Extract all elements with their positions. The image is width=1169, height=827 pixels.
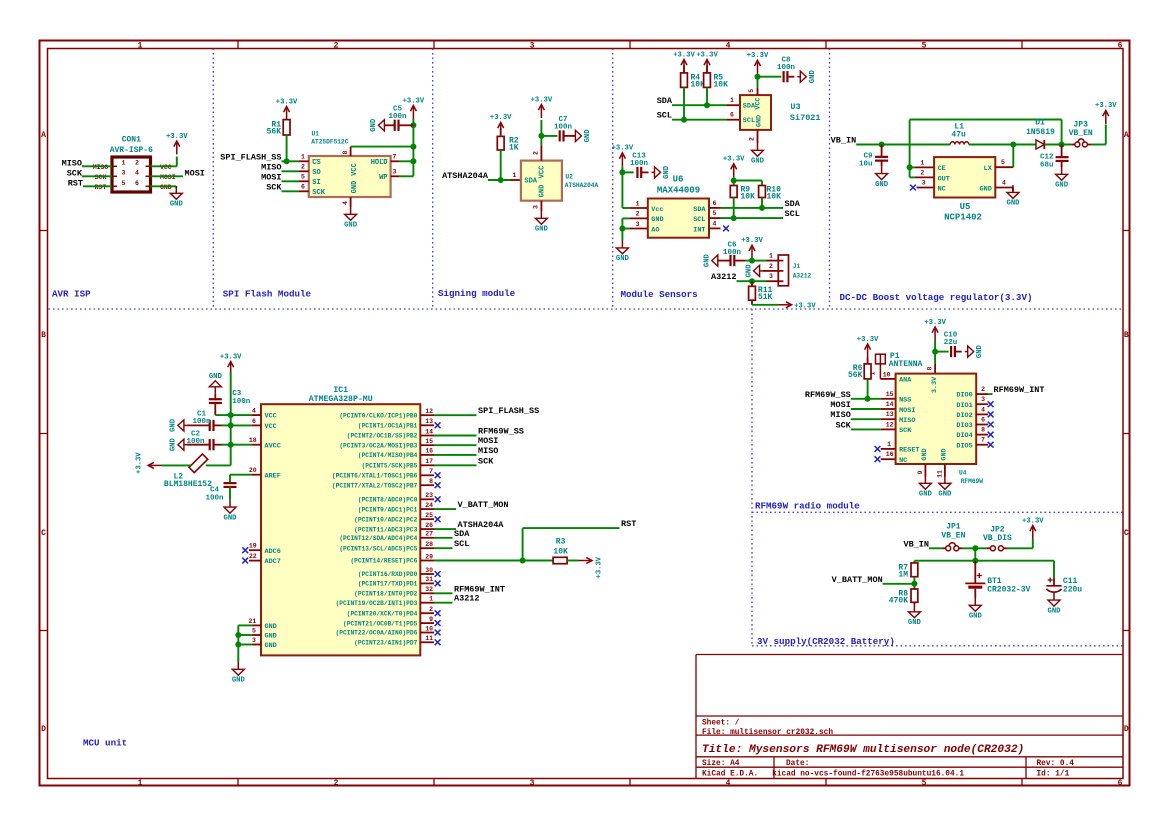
ground (U4 pin9) bbox=[919, 476, 933, 499]
svg-text:3: 3 bbox=[533, 205, 540, 209]
R11 bottom lead bbox=[751, 300, 753, 305]
wire D1 to JP3 bbox=[1044, 144, 1071, 146]
capacitor C2 100n bbox=[186, 430, 213, 450]
U6 right pin numbers bbox=[713, 200, 717, 228]
svg-text:MISO: MISO bbox=[261, 162, 281, 172]
wire IC1 PD2 to RFM69W_INT bbox=[434, 592, 453, 594]
svg-text:10u: 10u bbox=[859, 161, 873, 169]
svg-text:(PCINT2/OC1B/SS)PB2: (PCINT2/OC1B/SS)PB2 bbox=[347, 433, 418, 440]
wire GND drop bbox=[175, 186, 177, 188]
svg-text:3: 3 bbox=[122, 170, 126, 177]
frame column tick bottom 3 bbox=[629, 779, 631, 787]
no-connect IC1 PD0 bbox=[435, 571, 441, 577]
U5 pin names bbox=[938, 165, 993, 193]
wire AREF bbox=[230, 474, 252, 476]
frame column tick bottom 1 bbox=[237, 779, 239, 787]
frame row label B right bbox=[1124, 331, 1129, 340]
power +3.3V (U6) bbox=[612, 145, 634, 167]
jumper JP1 VB_EN bbox=[941, 523, 965, 551]
svg-text:+3.3V: +3.3V bbox=[595, 556, 603, 578]
svg-text:GND: GND bbox=[370, 118, 378, 132]
svg-text:100n: 100n bbox=[554, 123, 573, 131]
svg-text:(PCINT13/SCL/ADC5)PC5: (PCINT13/SCL/ADC5)PC5 bbox=[339, 545, 417, 552]
svg-text:DIO3: DIO3 bbox=[956, 422, 972, 430]
power +3.3V (3V supply) bbox=[1022, 517, 1044, 539]
power +3.3V (MCU) bbox=[220, 353, 242, 375]
wire IC1 PB5 to SCK bbox=[434, 464, 477, 466]
svg-text:28: 28 bbox=[425, 541, 433, 548]
U3 SCL pin6 stub bbox=[726, 112, 740, 120]
microcontroller IC1 ATMEGA328P-MU bbox=[261, 386, 420, 655]
wire R10 to SDA bbox=[761, 198, 763, 208]
resistor R5 bbox=[704, 73, 729, 90]
resistor R10 bbox=[759, 186, 782, 202]
svg-text:DIO2: DIO2 bbox=[956, 412, 972, 420]
svg-text:MISO: MISO bbox=[93, 164, 109, 171]
svg-text:IC1: IC1 bbox=[333, 386, 348, 395]
wire feedback right drop bbox=[1061, 120, 1063, 145]
svg-text:JP2: JP2 bbox=[990, 525, 1005, 534]
label SPI_FLASH_SS (IC1 PB0) bbox=[478, 406, 539, 416]
capacitor C4 100n bbox=[205, 483, 236, 503]
label RFM69W_SS (IC1 PB2) bbox=[478, 427, 524, 437]
svg-text:47u: 47u bbox=[951, 131, 966, 140]
C10 right lead bbox=[955, 351, 962, 353]
svg-text:RFM69W: RFM69W bbox=[961, 478, 984, 485]
ground (C6) bbox=[704, 253, 721, 267]
no-connect IC1 PD5 bbox=[435, 620, 441, 626]
jumper JP2 VB_DIS bbox=[983, 525, 1012, 550]
svg-text:(PCINT16/RXD)PD0: (PCINT16/RXD)PD0 bbox=[358, 571, 418, 578]
junction rail / C5 bbox=[410, 122, 416, 128]
U4 GND pin11 stub bbox=[936, 464, 945, 478]
svg-text:3: 3 bbox=[530, 41, 535, 50]
svg-text:SCK: SCK bbox=[95, 174, 107, 181]
junction SPI_FLASH_SS bbox=[284, 158, 290, 164]
wire R3 to +3.3V bbox=[567, 560, 578, 562]
section title MCU unit bbox=[83, 738, 127, 749]
junction GND pin3 bbox=[235, 642, 241, 648]
svg-text:26: 26 bbox=[425, 522, 433, 529]
U5 GND pin4 stub bbox=[995, 180, 1013, 188]
svg-text:GND: GND bbox=[651, 216, 663, 224]
svg-text:14: 14 bbox=[886, 401, 894, 408]
capacitor C11 220u bbox=[1046, 577, 1082, 595]
ground (C10) bbox=[965, 344, 985, 358]
junction U6 Vcc / C13 bbox=[619, 169, 625, 175]
svg-text:10: 10 bbox=[883, 371, 891, 378]
svg-text:MCU unit: MCU unit bbox=[83, 738, 127, 749]
junction C9 / VB_IN bbox=[879, 142, 885, 148]
svg-text:VCC: VCC bbox=[265, 413, 277, 421]
svg-text:+3.3V: +3.3V bbox=[673, 51, 695, 59]
dashed divider radio module bottom bbox=[752, 511, 1123, 513]
frame column label 4 bottom bbox=[726, 779, 731, 788]
junction VCC pin4 bbox=[228, 412, 234, 418]
IC1 right pin numbers bbox=[425, 408, 433, 642]
svg-text:RESET: RESET bbox=[899, 447, 919, 455]
ground (C3) bbox=[209, 373, 223, 394]
resistor R11 bbox=[749, 286, 773, 302]
svg-text:U5: U5 bbox=[960, 202, 971, 212]
svg-text:Signing module: Signing module bbox=[438, 288, 516, 299]
svg-text:MISO: MISO bbox=[62, 158, 82, 168]
diode D1 1N5819 bbox=[1026, 119, 1055, 149]
svg-text:470K: 470K bbox=[889, 597, 908, 606]
U6 right pin stubs bbox=[709, 208, 721, 229]
svg-text:GND: GND bbox=[170, 418, 178, 432]
wire +3.3V drop (U6) bbox=[621, 166, 623, 172]
svg-text:VB_EN: VB_EN bbox=[1069, 129, 1093, 138]
svg-text:100n: 100n bbox=[205, 495, 224, 503]
wire WP to rail bbox=[399, 175, 413, 177]
wire +3.3V riser (boost) bbox=[1105, 124, 1107, 144]
ground (U4 pin11) bbox=[938, 476, 952, 499]
CON1 pin names bbox=[93, 164, 176, 191]
wire battery drop bbox=[974, 548, 976, 560]
wire R2 to SDA bbox=[500, 150, 502, 180]
svg-text:(PCINT3/OC2A/MOSI)PB3: (PCINT3/OC2A/MOSI)PB3 bbox=[339, 442, 417, 449]
antenna P1 bbox=[869, 352, 922, 379]
svg-text:1: 1 bbox=[122, 160, 126, 167]
C1 left lead bbox=[187, 424, 210, 426]
ground (C9) bbox=[875, 166, 889, 189]
svg-text:C3: C3 bbox=[232, 390, 242, 398]
U6 left pin numbers bbox=[636, 200, 640, 228]
svg-text:+3.3V: +3.3V bbox=[696, 51, 718, 59]
svg-text:GND: GND bbox=[265, 623, 277, 631]
svg-text:9: 9 bbox=[917, 470, 924, 474]
frame column tick bottom 5 bbox=[1021, 779, 1023, 787]
svg-text:SCL: SCL bbox=[693, 216, 705, 224]
U1 pin names bbox=[312, 159, 359, 197]
J1 pin2 stub bbox=[763, 270, 779, 272]
svg-text:4: 4 bbox=[252, 408, 256, 415]
frame column tick bottom 2 bbox=[433, 779, 435, 787]
svg-text:NC: NC bbox=[938, 185, 946, 193]
junction RESET / R3 bbox=[520, 558, 526, 564]
ground (C12) bbox=[1055, 167, 1069, 190]
frame row tick left 1 bbox=[40, 230, 48, 232]
crypto IC U2 ATSHA204A bbox=[521, 161, 599, 201]
svg-text:Si7021: Si7021 bbox=[790, 113, 821, 123]
svg-text:HOLD: HOLD bbox=[371, 159, 388, 167]
svg-text:U2: U2 bbox=[565, 174, 573, 181]
capacitor C8 bbox=[777, 57, 796, 83]
svg-text:1: 1 bbox=[920, 159, 924, 166]
svg-text:2: 2 bbox=[301, 164, 305, 171]
label A3212 (IC1 PD3) bbox=[454, 594, 480, 604]
svg-text:GND: GND bbox=[160, 184, 172, 191]
U2 SDA pin1 stub bbox=[510, 172, 521, 180]
svg-text:15: 15 bbox=[886, 391, 894, 398]
title block Sheet text bbox=[702, 720, 740, 728]
J1 pin1 stub bbox=[767, 253, 779, 261]
svg-text:100n: 100n bbox=[232, 398, 251, 406]
svg-text:ADC7: ADC7 bbox=[265, 558, 281, 566]
wire MISO to U4 bbox=[851, 418, 881, 420]
frame column label 4 top bbox=[726, 41, 731, 50]
IC1 right pin names bbox=[332, 412, 418, 646]
svg-text:1: 1 bbox=[887, 441, 891, 448]
svg-text:JP3: JP3 bbox=[1073, 120, 1088, 129]
wire to VCC pin4 bbox=[231, 414, 252, 416]
svg-text:4: 4 bbox=[713, 220, 717, 227]
svg-text:SCL: SCL bbox=[743, 117, 755, 125]
svg-text:V_BATT_MON: V_BATT_MON bbox=[832, 575, 883, 585]
resistor R8 bbox=[889, 589, 918, 606]
svg-text:100n: 100n bbox=[723, 249, 742, 257]
C12 top lead bbox=[1061, 145, 1063, 157]
capacitor C13 bbox=[630, 152, 649, 178]
junction U2 VCC / C7 bbox=[538, 133, 544, 139]
label SCK (U1) bbox=[266, 182, 282, 192]
svg-text:56K: 56K bbox=[848, 371, 863, 380]
U5 GND drop bbox=[1012, 188, 1014, 193]
svg-text:+3.3V: +3.3V bbox=[490, 114, 512, 122]
svg-text:A3212: A3212 bbox=[793, 272, 812, 279]
wire IC1 PC6 to R3 bbox=[434, 560, 553, 562]
svg-text:MISO: MISO bbox=[899, 417, 915, 425]
U3 GND pin2 stub bbox=[749, 130, 758, 143]
dashed divider AVR-ISP/SPI-Flash bbox=[212, 49, 214, 310]
junction R5 / SDA bbox=[704, 102, 710, 108]
svg-text:NC: NC bbox=[899, 457, 907, 465]
svg-text:Size: A4: Size: A4 bbox=[702, 760, 740, 768]
svg-text:MOSI: MOSI bbox=[185, 168, 205, 178]
svg-text:(PCINT14/RESET)PC6: (PCINT14/RESET)PC6 bbox=[350, 558, 417, 565]
wire C3 to VCC bbox=[215, 414, 230, 416]
svg-text:2: 2 bbox=[334, 41, 339, 50]
ground (R8) bbox=[908, 605, 922, 628]
U5 LX pin5 stub bbox=[995, 159, 1013, 167]
svg-text:GND: GND bbox=[224, 514, 238, 522]
wire R1 to SPI_FLASH_SS bbox=[286, 135, 288, 161]
R2 top lead bbox=[500, 128, 502, 136]
frame column label 1 bottom bbox=[138, 779, 143, 788]
svg-text:+3.3V: +3.3V bbox=[276, 98, 298, 106]
wire R11 to +3.3V bbox=[752, 304, 778, 306]
wire LX riser bbox=[1012, 145, 1014, 168]
C2 right lead bbox=[214, 444, 222, 446]
no-connect U4 DIO5 bbox=[988, 442, 994, 448]
label MOSI (IC1 PB3) bbox=[478, 436, 498, 446]
svg-text:J1: J1 bbox=[793, 263, 801, 270]
svg-text:23: 23 bbox=[425, 492, 433, 499]
svg-text:30: 30 bbox=[425, 567, 433, 574]
wire AREF to C4 bbox=[229, 475, 231, 484]
U2 VCC pin2 stub bbox=[533, 145, 542, 160]
R11 top lead bbox=[751, 281, 753, 286]
junction J1 pin3 / R11 bbox=[749, 278, 755, 284]
frame column label 5 bottom bbox=[922, 779, 927, 788]
ground (BT1) bbox=[969, 598, 983, 621]
svg-text:5: 5 bbox=[713, 210, 717, 217]
svg-text:GND: GND bbox=[908, 619, 922, 627]
U4 3.3V pin8 stub bbox=[926, 364, 935, 374]
dashed divider Signing/Sensors bbox=[612, 49, 614, 310]
frame row tick left 2 bbox=[40, 433, 48, 435]
frame column label 3 top bbox=[530, 41, 535, 50]
svg-text:SCL: SCL bbox=[454, 539, 469, 549]
svg-text:C: C bbox=[1124, 529, 1129, 538]
no-connect U4 DIO4 bbox=[988, 432, 994, 438]
no-connect U6 INT bbox=[723, 226, 729, 232]
junction battery bus bbox=[972, 558, 978, 564]
svg-text:32: 32 bbox=[425, 586, 433, 593]
junction VCC rail / pin8 bbox=[410, 144, 416, 150]
sensor U3 Si7021 bbox=[740, 95, 821, 130]
wire +3.3V to J1 pin1 bbox=[751, 259, 753, 261]
wire R7 to R8 bbox=[913, 577, 915, 589]
svg-text:GND: GND bbox=[980, 185, 992, 193]
no-connect IC1 PC2 bbox=[435, 516, 441, 522]
svg-text:2: 2 bbox=[334, 779, 339, 788]
svg-text:VCC: VCC bbox=[265, 423, 277, 431]
svg-text:5: 5 bbox=[748, 89, 755, 93]
svg-text:LX: LX bbox=[984, 165, 993, 173]
label VB_IN (boost) bbox=[831, 136, 857, 146]
svg-text:R3: R3 bbox=[556, 538, 566, 547]
label MOSI bbox=[185, 168, 205, 178]
wire feedback left drop bbox=[909, 120, 911, 178]
C6 left lead bbox=[718, 260, 731, 262]
wire SPI_FLASH_SS to U1 CS bbox=[282, 160, 300, 162]
svg-text:VCC: VCC bbox=[351, 163, 359, 176]
U3 VCC pin5 stub bbox=[748, 87, 758, 95]
svg-text:RFM69W_INT: RFM69W_INT bbox=[994, 385, 1045, 395]
svg-text:GND: GND bbox=[351, 181, 359, 194]
svg-text:SO: SO bbox=[312, 169, 320, 177]
power +3.3V (U2) bbox=[531, 96, 553, 118]
wire feedback top rail bbox=[910, 119, 1062, 121]
svg-text:DIO4: DIO4 bbox=[956, 432, 972, 440]
svg-text:GND: GND bbox=[976, 344, 984, 358]
svg-text:4: 4 bbox=[342, 201, 349, 205]
svg-text:6: 6 bbox=[713, 200, 717, 207]
svg-text:B: B bbox=[1124, 331, 1129, 340]
BT1 bottom lead bbox=[974, 589, 976, 598]
wire IC1 PD3 to A3212 bbox=[434, 602, 453, 604]
CON1 pin numbers bbox=[122, 160, 140, 187]
U4 pin names bbox=[899, 376, 973, 465]
label RST bbox=[621, 519, 636, 529]
svg-text:SCK: SCK bbox=[67, 168, 83, 178]
svg-text:1: 1 bbox=[429, 596, 433, 603]
wire MCU ground drop bbox=[237, 625, 239, 662]
capacitor C3 bbox=[209, 390, 251, 406]
label MISO (U1) bbox=[261, 162, 281, 172]
svg-text:SDA: SDA bbox=[524, 178, 537, 186]
svg-text:GND: GND bbox=[938, 491, 952, 499]
label SDA (Si7021) bbox=[657, 96, 673, 106]
title block Id text bbox=[1037, 771, 1070, 779]
power +3.3V (U1 rail) bbox=[403, 97, 425, 119]
svg-text:DIO0: DIO0 bbox=[956, 392, 972, 400]
U6 pin names bbox=[651, 206, 706, 235]
svg-text:+3.3V: +3.3V bbox=[1095, 102, 1117, 110]
svg-text:D: D bbox=[1124, 725, 1129, 734]
junction D1 / C12 bbox=[1059, 142, 1065, 148]
capacitor C10 bbox=[944, 332, 958, 358]
svg-text:29: 29 bbox=[425, 553, 433, 560]
wire SCK to U1 SCK bbox=[282, 190, 300, 192]
svg-text:16: 16 bbox=[425, 448, 433, 455]
svg-text:4: 4 bbox=[726, 779, 731, 788]
ground (U2) bbox=[535, 211, 549, 234]
svg-text:GND: GND bbox=[170, 201, 184, 209]
svg-text:(PCINT18/INT0)PD2: (PCINT18/INT0)PD2 bbox=[354, 591, 417, 598]
svg-text:24: 24 bbox=[425, 502, 433, 509]
label V_BATT_MON (IC1 PC1) bbox=[458, 500, 509, 510]
svg-text:SDA: SDA bbox=[454, 529, 470, 539]
label MISO (IC1 PB4) bbox=[478, 446, 498, 456]
inductor L1 47u bbox=[950, 123, 969, 145]
wire R6 to NSS bbox=[867, 379, 869, 399]
IC1 left pin numbers bbox=[248, 408, 256, 644]
svg-text:(PCINT8/ADC0)PC0: (PCINT8/ADC0)PC0 bbox=[358, 497, 418, 504]
ferrite bead L2 BLM18HE152 bbox=[164, 454, 212, 489]
ground (C4) bbox=[224, 500, 238, 523]
svg-text:(PCINT23/AIN1)PD7: (PCINT23/AIN1)PD7 bbox=[354, 640, 417, 647]
no-connect U4 NC pin bbox=[875, 456, 881, 462]
svg-text:+3.3V: +3.3V bbox=[723, 156, 745, 164]
wire MISO to U1 SO bbox=[282, 170, 300, 172]
junction CE / feedback bbox=[907, 164, 913, 170]
wire R4 to SCL bbox=[683, 87, 685, 119]
C9 top lead bbox=[881, 145, 883, 157]
ground (C5) bbox=[370, 118, 387, 132]
dashed divider top row bottom bbox=[49, 308, 1124, 310]
resistor R4 bbox=[681, 73, 706, 90]
C3 bottom lead bbox=[214, 404, 216, 416]
svg-text:CE: CE bbox=[938, 165, 946, 173]
C9 bottom lead bbox=[881, 161, 883, 166]
U1 pin 4 stub bbox=[342, 197, 351, 207]
svg-text:10K: 10K bbox=[553, 547, 568, 556]
wire IC1 PB0 to SPI_FLASH_SS bbox=[434, 414, 477, 416]
U2 GND pin3 stub bbox=[533, 201, 542, 211]
wire C1 to VCC6 bbox=[222, 424, 231, 426]
svg-text:MAX44009: MAX44009 bbox=[657, 186, 700, 196]
ground (U6) bbox=[616, 241, 630, 264]
svg-text:GND: GND bbox=[265, 642, 277, 650]
svg-text:1: 1 bbox=[636, 200, 640, 207]
wire SDA to U3 bbox=[672, 104, 726, 106]
junction rail / HOLD bbox=[410, 158, 416, 164]
svg-text:(PCINT7/XTAL2/TOSC2)PB7: (PCINT7/XTAL2/TOSC2)PB7 bbox=[332, 482, 418, 489]
label V_BATT_MON (divider) bbox=[832, 575, 883, 585]
svg-text:(PCINT12/SDA/ADC4)PC4: (PCINT12/SDA/ADC4)PC4 bbox=[339, 535, 417, 542]
svg-text:SCK: SCK bbox=[835, 420, 851, 430]
wire R9 to R10 top bbox=[734, 180, 762, 182]
junction U4 3.3V / C10 bbox=[932, 349, 938, 355]
U6 left pin stubs bbox=[629, 208, 648, 229]
label SCL (U6) bbox=[785, 209, 800, 219]
label MOSI (U1) bbox=[261, 172, 281, 182]
svg-text:+3.3V: +3.3V bbox=[166, 133, 188, 141]
wire to C10 bbox=[935, 351, 949, 353]
svg-text:(PCINT21/OC0B/T1)PD5: (PCINT21/OC0B/T1)PD5 bbox=[343, 620, 418, 627]
U4 left pin stubs bbox=[881, 399, 896, 459]
J1 pin3 stub bbox=[767, 273, 779, 281]
BT1 top lead bbox=[974, 561, 976, 584]
power +3.3V (R4) bbox=[673, 51, 695, 73]
wire RST to CON1 bbox=[83, 185, 112, 187]
no-connect IC1 PD7 bbox=[435, 639, 441, 645]
power +3.3V (AVR ISP) bbox=[166, 133, 188, 155]
svg-text:VB_IN: VB_IN bbox=[831, 136, 857, 146]
